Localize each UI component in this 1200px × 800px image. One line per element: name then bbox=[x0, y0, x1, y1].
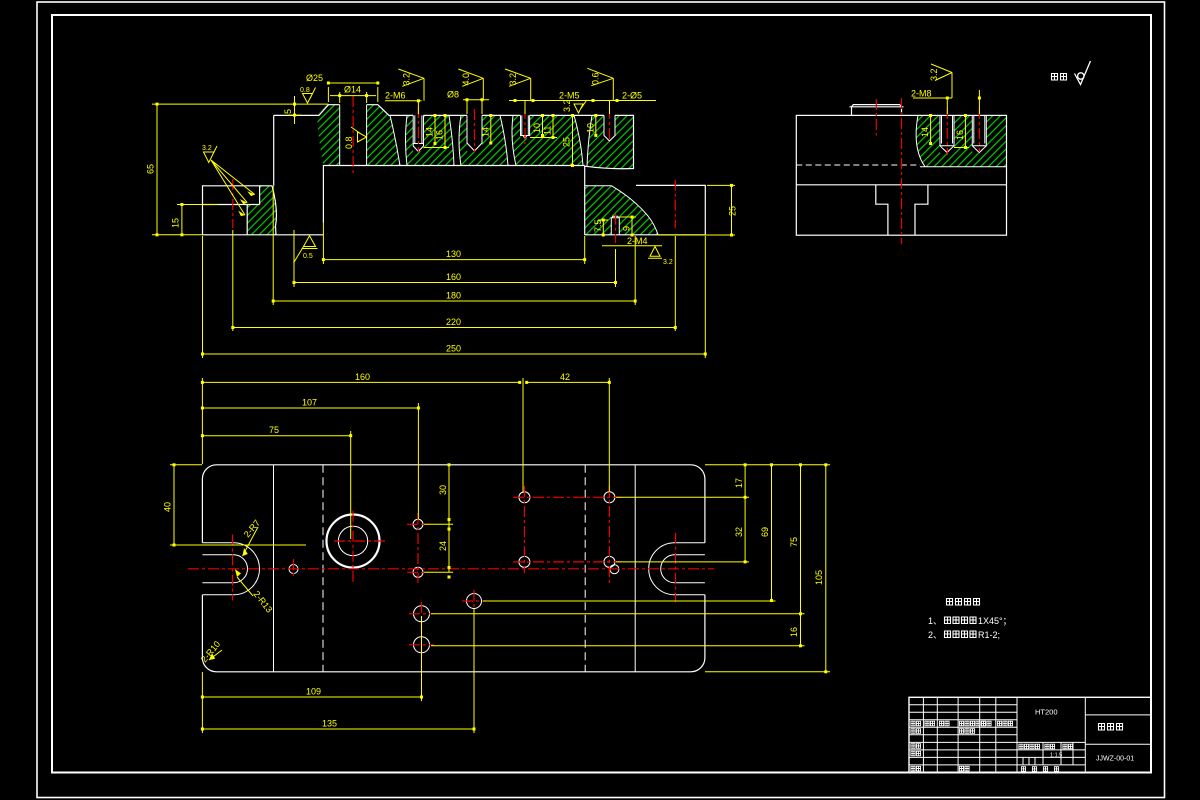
svg-text:2-M5: 2-M5 bbox=[559, 91, 580, 101]
svg-text:10: 10 bbox=[532, 123, 542, 133]
cast web channel 1 bbox=[390, 115, 407, 165]
technical requirements bbox=[947, 599, 953, 606]
svg-text:40: 40 bbox=[163, 502, 173, 512]
svg-text:2-M6: 2-M6 bbox=[385, 91, 406, 101]
pin hole 2-Dia5 bbox=[604, 115, 615, 141]
svg-text:0.6: 0.6 bbox=[591, 72, 601, 85]
svg-text:14: 14 bbox=[480, 127, 490, 137]
hole bores (black) bbox=[340, 105, 367, 166]
svg-text:3.2: 3.2 bbox=[202, 145, 212, 152]
svg-text:3.2: 3.2 bbox=[508, 73, 518, 86]
svg-text:30: 30 bbox=[438, 485, 448, 495]
roughness symbol 3.2 with leaders at left step bbox=[204, 146, 255, 215]
svg-text:42: 42 bbox=[560, 372, 570, 382]
svg-text:24: 24 bbox=[438, 541, 448, 551]
svg-text:1:1.5: 1:1.5 bbox=[1050, 753, 1062, 759]
roughness symbol 0.5 bottom bbox=[294, 236, 318, 263]
roughness 0.8 inside bore bbox=[351, 127, 367, 142]
front view red centerlines bbox=[233, 96, 676, 243]
hatch bottom line bbox=[920, 166, 1007, 168]
base plate line bbox=[796, 184, 1006, 186]
svg-text:1X45°；: 1X45°； bbox=[978, 616, 1012, 626]
svg-text:75: 75 bbox=[269, 425, 279, 435]
boss circle with bore bbox=[327, 515, 380, 568]
svg-text:107: 107 bbox=[302, 398, 317, 408]
svg-text:Ø8: Ø8 bbox=[447, 90, 459, 100]
svg-text:9: 9 bbox=[622, 226, 632, 231]
svg-text:109: 109 bbox=[306, 687, 321, 697]
title block bbox=[909, 697, 1151, 772]
cavity rectangle bbox=[323, 166, 584, 223]
plan holes bbox=[289, 565, 298, 574]
svg-text:130: 130 bbox=[446, 249, 461, 259]
svg-text:2-M4: 2-M4 bbox=[627, 236, 648, 246]
svg-text:2-M8: 2-M8 bbox=[911, 89, 932, 99]
svg-text:7.5: 7.5 bbox=[593, 219, 603, 232]
stepped tenon bbox=[876, 185, 928, 235]
roughness 3.2 above band dim bbox=[574, 100, 587, 113]
drilled hole Dia8 bbox=[467, 115, 482, 151]
svg-text:Ø14: Ø14 bbox=[344, 85, 361, 95]
svg-text:15: 15 bbox=[171, 218, 181, 228]
svg-text:5: 5 bbox=[283, 109, 293, 114]
svg-text:16: 16 bbox=[955, 130, 965, 140]
svg-text:16: 16 bbox=[435, 130, 445, 140]
hatch wavy boundary bbox=[916, 115, 925, 166]
svg-text:17: 17 bbox=[734, 478, 744, 488]
front view outline bbox=[274, 105, 634, 235]
cast web channel 2 bbox=[449, 115, 461, 165]
svg-text:69: 69 bbox=[760, 527, 770, 537]
svg-text:11: 11 bbox=[543, 126, 553, 135]
svg-text:3.2: 3.2 bbox=[562, 99, 572, 112]
svg-text:250: 250 bbox=[446, 344, 461, 354]
right view body outline bbox=[796, 115, 1006, 235]
svg-text:0.8: 0.8 bbox=[300, 87, 310, 94]
front section view: hatch band of fixture body bbox=[317, 105, 634, 169]
internal edge lines bbox=[273, 465, 275, 672]
svg-text:14: 14 bbox=[920, 127, 930, 137]
svg-text:75: 75 bbox=[789, 537, 799, 547]
right side view hatch region bbox=[916, 115, 1006, 166]
svg-text:Ø25: Ø25 bbox=[306, 73, 323, 83]
svg-text:16: 16 bbox=[789, 627, 799, 637]
svg-text:JJWZ-00-01: JJWZ-00-01 bbox=[1096, 756, 1134, 763]
svg-text:4.0: 4.0 bbox=[461, 73, 471, 86]
svg-text:105: 105 bbox=[814, 570, 824, 585]
svg-text:0.5: 0.5 bbox=[303, 253, 313, 260]
web channel borders bbox=[390, 115, 407, 165]
svg-text:14: 14 bbox=[425, 127, 435, 137]
hidden line bbox=[796, 164, 920, 166]
hatch region: right lobe bbox=[585, 186, 658, 235]
svg-text:R1-2;: R1-2; bbox=[978, 630, 1000, 640]
svg-text:160: 160 bbox=[355, 372, 370, 382]
rest-of-surfaces mark bbox=[1052, 74, 1058, 81]
right view centerlines bbox=[876, 98, 979, 244]
counterbore hole Dia14 bbox=[340, 105, 367, 165]
cast web channel 3 bbox=[500, 115, 516, 165]
roughness symbol 0.8 top-left bbox=[303, 88, 316, 104]
top boss bbox=[850, 105, 904, 116]
right lobe boundary bbox=[585, 186, 658, 235]
svg-text:2-Ø5: 2-Ø5 bbox=[622, 91, 642, 101]
svg-text:180: 180 bbox=[446, 291, 461, 301]
tapped holes 2-M8 bbox=[940, 115, 954, 152]
svg-text:3.2: 3.2 bbox=[663, 259, 673, 266]
surface roughness marks above hole labels bbox=[398, 68, 613, 101]
left step block bbox=[203, 186, 277, 235]
svg-text:0.8: 0.8 bbox=[344, 136, 354, 149]
left slot bbox=[202, 543, 259, 595]
svg-text:160: 160 bbox=[446, 272, 461, 282]
tapped hole M6 bbox=[413, 115, 423, 151]
svg-text:2、: 2、 bbox=[928, 630, 942, 640]
svg-text:65: 65 bbox=[146, 164, 156, 174]
svg-text:HT200: HT200 bbox=[1035, 708, 1058, 717]
hatch region: left step web bbox=[247, 186, 276, 235]
right view dims bbox=[913, 90, 979, 148]
roughness mark above 2-M8 bbox=[931, 64, 952, 98]
plan centerlines bbox=[188, 486, 714, 657]
plan view plate outline bbox=[202, 465, 705, 672]
roughness symbol 3.2 below 2-M4 bbox=[648, 247, 662, 259]
svg-text:135: 135 bbox=[322, 719, 337, 729]
svg-text:10: 10 bbox=[585, 123, 595, 133]
svg-text:3.2: 3.2 bbox=[929, 68, 939, 81]
svg-text:25: 25 bbox=[562, 137, 572, 147]
tapped hole M4 from bottom bbox=[611, 216, 619, 235]
tapped hole M5 bbox=[521, 115, 530, 138]
svg-text:3.2: 3.2 bbox=[402, 73, 412, 86]
plan view dimensions bbox=[170, 378, 830, 733]
svg-text:1、: 1、 bbox=[928, 616, 942, 626]
svg-text:220: 220 bbox=[446, 317, 461, 327]
svg-text:32: 32 bbox=[734, 527, 744, 537]
hidden internal lines bbox=[322, 465, 324, 672]
cast web channel 4 bbox=[574, 115, 592, 166]
front view dimensions bbox=[152, 83, 735, 358]
right slot bbox=[649, 543, 705, 595]
dimension end markers bbox=[156, 82, 734, 356]
right plate bbox=[585, 185, 706, 235]
svg-text:25: 25 bbox=[728, 206, 738, 216]
